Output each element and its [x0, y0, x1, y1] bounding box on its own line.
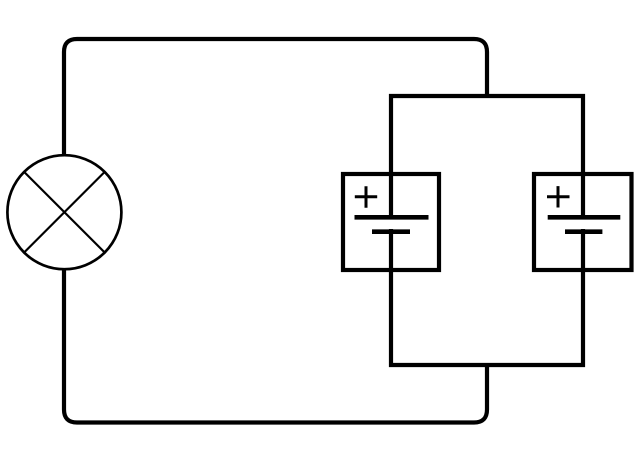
lamp L1	[7, 155, 121, 269]
battery B2	[534, 174, 632, 270]
battery B2 plus label	[547, 186, 570, 207]
battery B1 negative plate	[372, 229, 410, 234]
wire: bottom bus from battery B1 to battery B2	[391, 229, 583, 365]
wire: top bus from battery B1 to battery B2	[391, 96, 583, 219]
wire: lamp top up, across top, down to node A	[64, 39, 487, 156]
battery B2 positive plate	[548, 215, 621, 220]
battery B1 positive plate	[355, 215, 429, 220]
battery B2 negative plate	[565, 229, 602, 234]
battery B1 plus label	[355, 186, 377, 208]
battery B1	[343, 174, 439, 270]
wire: return from node B down, across bottom, up to lamp bottom	[64, 268, 487, 423]
